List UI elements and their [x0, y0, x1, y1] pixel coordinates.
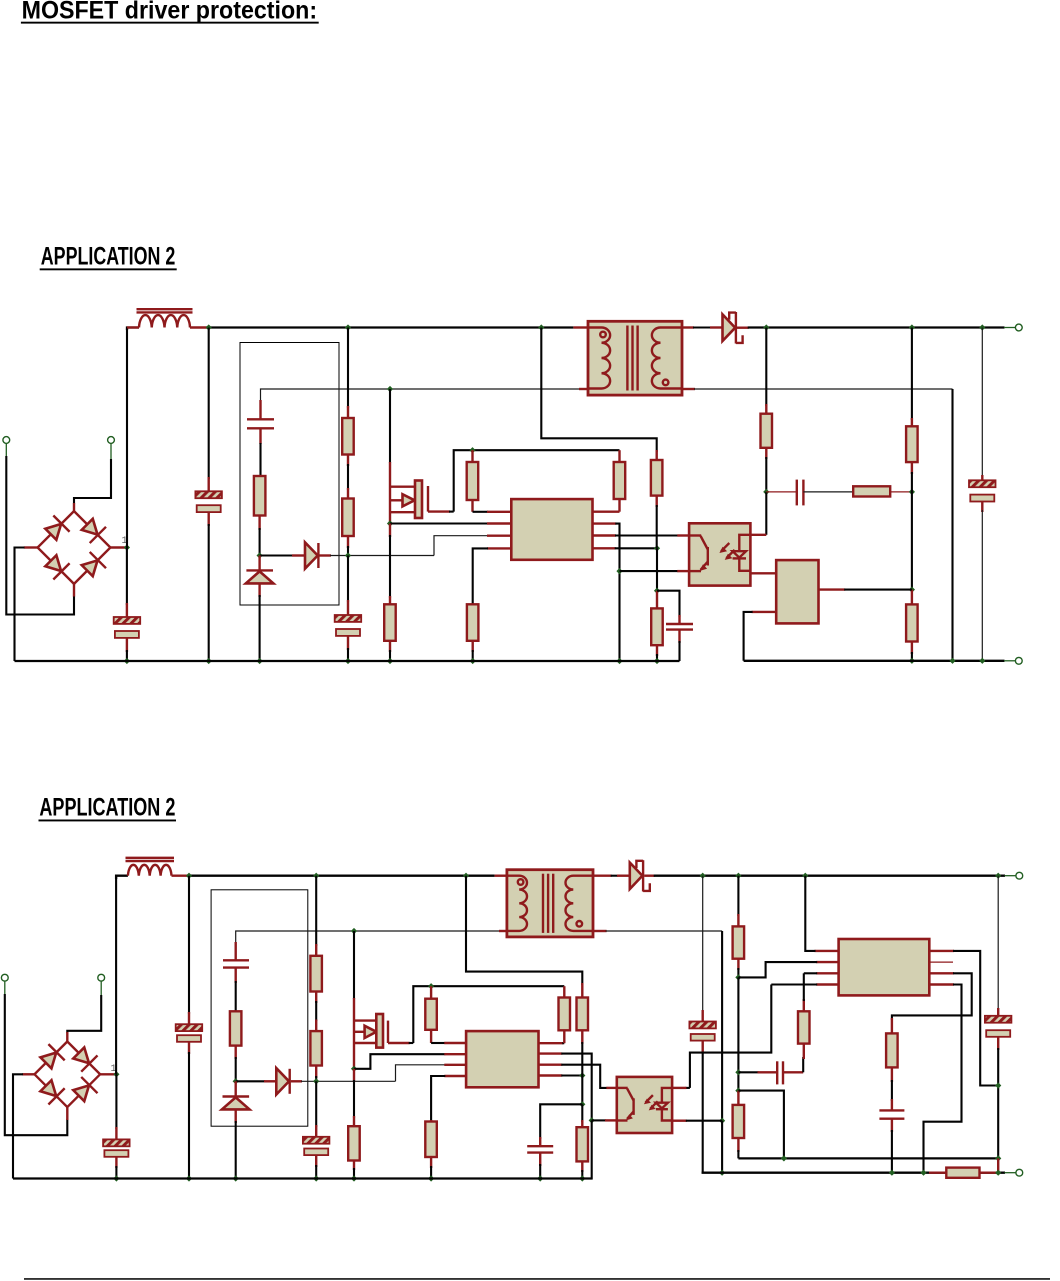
capacitor C9b electrolytic (x998.2): [985, 876, 1012, 1159]
output terminal top: [1004, 324, 1022, 331]
wire: opto emitter to TL431 ref: [750, 572, 776, 574]
junction bus x891.9: [889, 1170, 895, 1176]
wire: IC pin R4: [593, 547, 658, 549]
wire: IC2 pin R4: [539, 1074, 583, 1076]
resistor R12b (x891.9): [886, 1018, 898, 1101]
capacitor C6b electrolytic (x702.7): [689, 876, 716, 1173]
capacitor C4b electrolytic (x316.2): [303, 1081, 330, 1178]
second bus (secondary ground): [738, 1157, 999, 1159]
junction bus x657: [654, 658, 660, 664]
optocoupler U3: [689, 523, 750, 585]
wire: drain riser and drain rail: [454, 450, 620, 511]
bridge diode D-botright: [71, 1077, 98, 1104]
transformer TR1: [573, 321, 695, 395]
optocoupler U3b: [617, 1077, 672, 1133]
junction x619.5 opto row: [616, 568, 622, 574]
junction bus2 x998.2: [995, 1155, 1001, 1161]
resistor R10 (horizontal): [853, 486, 912, 496]
transformer TR2: [495, 870, 612, 937]
capacitor C2b electrolytic (x189): [176, 876, 203, 1179]
bottom bus right segment (terminal row): [703, 1172, 1005, 1173]
wire: IC2 pin L3 red stub: [444, 1064, 466, 1066]
wire: diode out up to IC pin L3: [434, 536, 488, 556]
junction bus x923.5: [920, 1170, 926, 1176]
bridge stubs: [73, 503, 75, 512]
wire: U2b pin L3: [804, 972, 839, 974]
junction diode wire x316.2: [313, 1078, 319, 1084]
wire: bridge left corner to bottom bus: [15, 548, 25, 662]
wire: source node to IC2 pin L2: [354, 1054, 466, 1069]
output terminal bottom: [1004, 657, 1022, 664]
bottom bus left segment 2: [13, 1177, 592, 1179]
junction rail x466: [463, 873, 469, 879]
junction rail x738.4: [735, 873, 741, 879]
resistor R3 (x472.5): [467, 450, 479, 512]
wire: x591.7 down to bus end: [582, 1120, 592, 1178]
resistor R8b (x582.3 lower): [577, 1104, 589, 1178]
wire: terminal1b down: [4, 981, 6, 995]
junction bus2 x783.9: [781, 1155, 787, 1161]
inductor L1: [127, 309, 209, 327]
capacitor C1b electrolytic (x116): [103, 1074, 130, 1178]
wire: source node down to R5b: [353, 1069, 355, 1127]
bridge diode D-topright: [79, 516, 106, 543]
wire: opto TR pin stub: [672, 1087, 690, 1089]
svg-text:APPLICATION 2: APPLICATION 2: [39, 794, 175, 822]
capacitor C4 electrolytic (x348): [335, 600, 362, 661]
junction x998.2 pin R1 node: [995, 1082, 1001, 1088]
junction x582.3 lower node: [579, 1101, 585, 1107]
zener Z1: [246, 556, 274, 662]
junction bus x348: [345, 658, 351, 664]
junction bus x982.3: [979, 658, 985, 664]
wire: top rail 2 right of schottky: [654, 875, 1005, 877]
wire: x766.3 down to opto collector: [750, 492, 766, 535]
resistor R8 (x657 lower): [651, 591, 663, 661]
snubber sub-circuit box 2: [211, 890, 308, 1126]
wire: secondary bottom to x952.5 riser (thin): [694, 388, 953, 390]
wire: U2b pin L1 to rail: [805, 876, 838, 951]
wire: IC pin R3 to opto anode: [593, 534, 690, 536]
capacitor C7b (x777-783 vertical plates): [738, 1057, 803, 1084]
junction bus x998.2 bottom: [995, 1170, 1001, 1176]
wire: IC2 pin R3 to opto anode: [539, 1065, 617, 1088]
wire: IC pin R1 + resistor R6: [593, 450, 626, 512]
input terminal 1: [3, 437, 10, 444]
junction rail x316.2: [313, 873, 319, 879]
capacitor C5 (x679.5 non-polar): [657, 591, 693, 661]
wire: x738.4 down chain: [737, 977, 739, 1090]
junction x766.3 RC node: [763, 489, 769, 495]
junction rail x998.2: [995, 873, 1001, 879]
resistor R9b (x738.4 from rail): [733, 876, 745, 978]
junction bus x911.9: [909, 658, 915, 664]
bottom bus left segment: [15, 660, 680, 662]
wire: x657 down to lower node: [656, 548, 658, 590]
bridge diode D-topright: [71, 1045, 98, 1072]
wire: U2b pin L2 to x738 node: [738, 962, 838, 977]
output terminal bottom 2: [1005, 1169, 1023, 1176]
wire: x348 rail down: [347, 328, 349, 409]
wire: IC pin L4: [473, 548, 512, 606]
bridge rectifier BR1 frame: [38, 511, 111, 584]
MOSFET Q1: [390, 462, 454, 524]
wire: U2b pin R2 stub (nc): [929, 961, 953, 963]
diode D1 (snubber): [260, 542, 434, 568]
IC U1: [511, 499, 592, 560]
bottom bus right segment: [744, 660, 1005, 662]
wire: diode out up to IC pin L3: [396, 1065, 446, 1082]
resistor R11b (x803.8 from IC pin L3): [798, 973, 810, 1059]
junction rail x911.9: [909, 324, 915, 330]
MOSFET Q2: [354, 998, 413, 1069]
wire: IC pin L2: [390, 522, 511, 524]
wire: bus2 to bottom bus red link: [997, 1158, 999, 1172]
wire: U2b pin R3: [892, 973, 972, 1020]
resistor R10b (x738.4 lower): [733, 1091, 745, 1159]
junction bus x259.6: [257, 658, 263, 664]
wire: opto BR pin to x722: [672, 1119, 722, 1121]
wire: terminal2b to bridge top: [100, 981, 102, 996]
junction bus x619.5: [616, 658, 622, 664]
resistor chain x582.3 from rail: [466, 876, 588, 1076]
junction bus x189: [186, 1175, 192, 1181]
junction snubber mid node: [257, 552, 263, 558]
resistor R12 (x911.9 lower): [906, 590, 918, 661]
junction rail x702.7: [700, 873, 706, 879]
wire: snubber node to transformer primary (thin): [261, 389, 580, 418]
wire: IC pin L1: [473, 511, 512, 513]
wire: x722.1 down to bottom bus corner: [721, 1121, 723, 1173]
junction gate-feed on wire y931: [351, 928, 357, 934]
junction x738.4 pin L2 node: [735, 974, 741, 980]
resistor R5 (x390): [384, 604, 396, 661]
wire: IC2 pin L1: [431, 1042, 466, 1044]
wire: gate riser: [389, 389, 391, 463]
bridge stubs: [66, 1032, 68, 1042]
wire: gate riser 2: [353, 931, 355, 999]
wire: source node down to R5: [389, 524, 391, 606]
resistor R2a-b chain x316.2: [310, 876, 322, 1082]
resistor R7 (x657 upper): [651, 450, 663, 548]
schottky diode D2: [723, 312, 749, 344]
junction bridge right corner: [124, 544, 130, 550]
junction bridge right corner: [113, 1071, 119, 1077]
wire: top rail circuit 1: [127, 328, 139, 331]
bridge diode D-botleft: [43, 553, 70, 580]
wire: x116 vertical rail to bridge: [115, 877, 117, 1074]
input terminal 2b: [98, 974, 105, 981]
junction bus x209: [206, 658, 212, 664]
snubber sub-circuit box: [240, 343, 339, 606]
wire: opto LED cathode row: [620, 570, 690, 572]
wire: TL431 cathode to x911.9: [819, 588, 912, 590]
wire: IC2 pin R1 + resistor R6b: [539, 986, 571, 1043]
wire: secondary top to schottky: [693, 326, 723, 328]
junction bus x235.7: [233, 1175, 239, 1181]
resistor R2b: [342, 488, 354, 556]
junction x738.4 cap node: [735, 1069, 741, 1075]
wire: top rail right of schottky: [748, 326, 1005, 328]
wire: x348 down to cap: [347, 556, 349, 603]
bridge diode D-topleft: [38, 1044, 65, 1071]
junction x911.9 RC node: [909, 489, 915, 495]
capacitor C8b (x891.9 non-polar): [879, 1099, 904, 1173]
junction rail x805.3: [802, 873, 808, 879]
wire: IC2 pin L4: [431, 1076, 466, 1122]
junction bus x472.7: [470, 658, 476, 664]
bridge diode D-topleft: [43, 516, 70, 543]
resistor R2a: [342, 406, 354, 466]
resistor R4b (x431.1 lower): [425, 1120, 437, 1179]
capacitor C1 electrolytic (x127): [114, 603, 141, 661]
capacitor C3b (snubber non-polar): [223, 942, 249, 1013]
bridge diode D-botright: [79, 552, 106, 579]
junction x738.4 bus2 node: [735, 1088, 741, 1094]
big IC U2b: [839, 939, 930, 995]
input terminal 1b: [1, 974, 8, 981]
wire: terminal2 lead to bridge top: [110, 444, 112, 461]
svg-text:MOSFET driver protection:: MOSFET driver protection:: [22, 0, 318, 24]
wire: y1052.6 link (opto collector riser to IC pin L4 riser): [690, 985, 771, 1088]
junction bus x354: [351, 1175, 357, 1181]
TL431 U2: [776, 560, 818, 623]
junction on rail x541.3: [538, 324, 544, 330]
diode D1b (snubber): [236, 1068, 396, 1094]
wire: bus2 riser from x738.4 node: [738, 1091, 784, 1159]
junction MOSFET2 source node: [351, 1066, 357, 1072]
wire: opto LED cathode row 2: [592, 1119, 617, 1121]
wire: IC pin L3 red stub: [487, 535, 511, 537]
wire: secondary2 top to schottky: [611, 875, 630, 877]
wire: x127 vertical rail to bridge: [126, 329, 128, 548]
capacitor C7 electrolytic (x982.3): [969, 328, 996, 661]
junction bus x127: [124, 658, 130, 664]
wire: bridge node down to cap: [126, 548, 128, 606]
zener Z2: [222, 1081, 250, 1178]
resistor R5b (x354): [348, 1126, 360, 1178]
wire: U2b pin R1: [929, 951, 998, 1086]
junction rail x982.3: [979, 324, 985, 330]
wire: terminal1 lead down: [5, 444, 7, 458]
wire: drain riser and drain rail 2: [413, 986, 564, 1043]
wire: x209 vertical rail to cap: [208, 328, 210, 480]
junction x911.9 TL431 row: [909, 587, 915, 593]
schottky diode D2b: [630, 860, 655, 891]
junction drain rail x431.1: [428, 983, 434, 989]
svg-text:APPLICATION 2: APPLICATION 2: [41, 243, 176, 271]
wire: U2b pin L4: [771, 983, 838, 985]
junction on rail at inductor output: [206, 324, 212, 330]
capacitor C6 (RC, vertical plates): [766, 480, 854, 506]
junction bus x952.5: [949, 658, 955, 664]
output terminal top 2: [1005, 872, 1023, 879]
IC U1b: [466, 1031, 538, 1087]
junction bus x316.2: [313, 1175, 319, 1181]
wire: bridge left corner to bus: [13, 1074, 23, 1178]
wire: top rail circuit 2: [116, 876, 128, 879]
input terminal 2: [108, 437, 115, 444]
junction x591.7 opto row: [589, 1117, 595, 1123]
wire between R2a R2b: [347, 464, 349, 490]
wire: TL431 anode to right bus: [744, 612, 777, 661]
junction rail x766.3: [763, 324, 769, 330]
resistor R9 (x766.3): [761, 328, 773, 492]
junction rail x189: [186, 873, 192, 879]
junction bus x582.3: [579, 1175, 585, 1181]
bridge diode D-botleft: [38, 1078, 65, 1105]
inductor L2: [126, 858, 190, 876]
wire: IC2 pin R2 to opto cathode: [539, 1054, 592, 1121]
resistor R11 (x911.9 upper): [906, 328, 918, 590]
junction x582.3 pinR4: [579, 1072, 585, 1078]
bridge rectifier BR2 frame: [35, 1042, 101, 1108]
resistor R3b (x431.1): [425, 986, 437, 1043]
resistor R13b (horizontal bottom): [929, 1168, 998, 1178]
wire: IC pin R2 down to opto row: [593, 524, 620, 661]
wire: secondary2 bottom to x722 riser (thin): [606, 930, 723, 932]
junction snubber mid node 2: [233, 1078, 239, 1084]
junction bus x390: [387, 658, 393, 664]
resistor R4 (x472.7 lower): [467, 604, 479, 661]
junction x657 pinR4: [654, 545, 660, 551]
footer rule: [24, 1278, 1050, 1280]
wire: snubber node to transformer primary (thin): [236, 931, 499, 958]
capacitor C3 (snubber, non-polar): [247, 400, 274, 477]
junction on rail x348: [345, 324, 351, 330]
junction bus x431.1: [428, 1175, 434, 1181]
wire: U2b pin R4: [924, 985, 962, 1173]
junction bus x116.4: [113, 1175, 119, 1181]
wire: L-path from rail to R7: [541, 328, 656, 453]
junction diode wire x348: [345, 552, 351, 558]
resistor R-snubber: [254, 476, 266, 556]
wire: x582.3 down to lower node: [581, 1076, 583, 1105]
resistor R-snubber 2: [230, 1011, 242, 1081]
junction drain rail x472.5: [469, 447, 475, 453]
junction x657 lower node: [654, 588, 660, 594]
capacitor C5b (x540.2 non-polar): [527, 1104, 582, 1178]
junction x722.1 opto row: [719, 1118, 725, 1124]
capacitor C2 electrolytic (x209): [195, 477, 222, 661]
junction gate-feed on wire y389: [387, 386, 393, 392]
junction bus x722.1: [719, 1170, 725, 1176]
junction bus x540.2: [537, 1175, 543, 1181]
junction MOSFET source node: [387, 520, 393, 526]
